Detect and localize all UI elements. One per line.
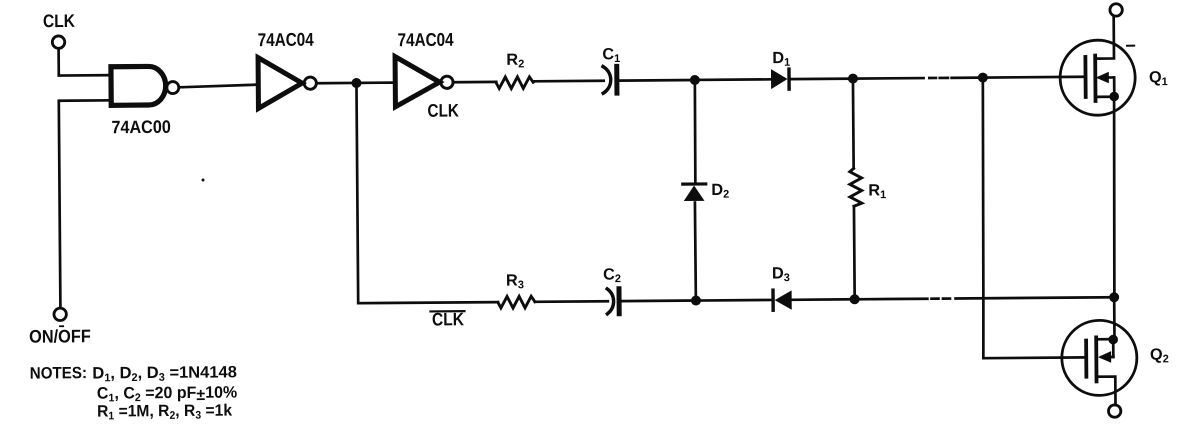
tick mark artifact near Q1 bbox=[1127, 45, 1134, 47]
wire dashes to node G bbox=[956, 297, 1115, 298]
wire inverter U2 to inverter U3 bbox=[317, 81, 395, 84]
Q2 drain lead from node G bbox=[1113, 297, 1116, 339]
wire node D down to Q2 gate bbox=[981, 77, 1086, 358]
capacitor C1 flat plate bbox=[614, 66, 619, 93]
diode D2 triangle bbox=[684, 185, 705, 201]
Q2 body arrow head bbox=[1098, 351, 1111, 363]
Q1 body arrow head bbox=[1096, 72, 1109, 84]
Q1 body arrow line bbox=[1101, 76, 1114, 79]
wire node B down through D2 to bottom rail bbox=[694, 80, 697, 301]
resistor R2 bbox=[496, 77, 533, 89]
wire node C down to R1 bbox=[852, 79, 855, 169]
diode D3 triangle bbox=[775, 290, 792, 310]
junction node C (R1 top) bbox=[848, 74, 858, 84]
Q2 source lead bbox=[1096, 377, 1115, 406]
junction node G (Q1 source / Q2 drain) bbox=[1109, 292, 1119, 302]
inverter U2 74AC04 triangle bbox=[258, 57, 302, 108]
svg-text:NOTES:: NOTES: bbox=[30, 365, 87, 383]
dashed wire segment (top rail) bbox=[929, 77, 948, 80]
junction node E (D2 bottom) bbox=[691, 296, 701, 306]
svg-text:CLK: CLK bbox=[427, 100, 459, 121]
Q1 body tie vertical bbox=[1113, 77, 1116, 96]
svg-text:CLK: CLK bbox=[43, 11, 76, 32]
svg-text:D1, D2, D3 =1N4148: D1, D2, D3 =1N4148 bbox=[92, 363, 237, 384]
dashed wire segment (bottom rail) bbox=[931, 297, 949, 300]
Q2 drain horizontal bbox=[1096, 338, 1113, 341]
junction node D (gate tap) bbox=[978, 73, 988, 83]
wire node B to D1 bbox=[695, 78, 771, 81]
scan tick artifact above ON/OFF label bbox=[60, 325, 63, 327]
diode D3 cathode bar bbox=[771, 290, 775, 310]
terminal Q2 source bbox=[1108, 405, 1120, 417]
terminal ON/OFF input bbox=[54, 308, 66, 320]
wire node A down and along bottom rail to R3 bbox=[356, 82, 498, 303]
wire NAND output to inverter U2 bbox=[180, 85, 257, 88]
junction node F (R1 bottom) bbox=[850, 294, 860, 304]
capacitor C1 curved plate bbox=[603, 66, 611, 93]
Q1 gate bar bbox=[1083, 57, 1087, 97]
Q2 drain-body junction dot bbox=[1108, 335, 1118, 345]
terminal CLK input bbox=[52, 36, 64, 48]
wire Q1 source down to node E bbox=[1113, 97, 1116, 298]
bottom rail: resistor R3 bbox=[498, 296, 535, 308]
wire R1 to bottom rail bbox=[853, 206, 856, 299]
wire D3 to node F bbox=[792, 298, 855, 301]
svg-text:74AC04: 74AC04 bbox=[258, 29, 315, 50]
inverter U2 output bubble bbox=[304, 77, 316, 89]
svg-text:R1 =1M, R2, R3 =1k: R1 =1M, R2, R3 =1k bbox=[97, 401, 232, 422]
Q2 gate bar bbox=[1084, 341, 1088, 377]
capacitor C2 flat plate bbox=[616, 289, 621, 314]
wire C2 to node E bbox=[621, 299, 696, 302]
wire CLK terminal to NAND input A bbox=[59, 48, 112, 76]
svg-text:ON/OFF: ON/OFF bbox=[29, 325, 91, 347]
diode D1 triangle bbox=[771, 69, 788, 89]
Q1 drain lead bbox=[1095, 16, 1114, 58]
capacitor C2 curved plate bbox=[607, 289, 614, 314]
NAND gate U1 74AC00 body bbox=[111, 66, 166, 105]
MOSFET Q1 body circle bbox=[1060, 40, 1136, 116]
wire ON/OFF terminal to NAND input B bbox=[59, 100, 113, 308]
Q2 body tie vertical bbox=[1112, 340, 1115, 357]
Q2 channel bar bbox=[1094, 337, 1098, 381]
wire C1 to node B bbox=[619, 79, 695, 82]
terminal Q1 drain bbox=[1110, 4, 1122, 16]
svg-text:74AC00: 74AC00 bbox=[111, 117, 171, 137]
svg-text:74AC04: 74AC04 bbox=[398, 29, 455, 50]
Q1 channel bar bbox=[1093, 56, 1097, 101]
junction node A (feedback tap) bbox=[351, 78, 361, 88]
inverter U3 74AC04 triangle bbox=[395, 56, 440, 107]
diode D2 cathode bar bbox=[683, 182, 706, 185]
resistor R1 bbox=[850, 168, 862, 206]
inverter U3 output bubble bbox=[441, 76, 453, 88]
wire node C toward dashes bbox=[853, 77, 924, 80]
Q1 source-body junction dot bbox=[1109, 92, 1119, 102]
Q1 source lead bbox=[1095, 95, 1114, 98]
wire node E to D3 bbox=[696, 299, 773, 302]
wire D1 to node C bbox=[789, 77, 853, 80]
diode D1 cathode bar bbox=[787, 69, 791, 89]
Q2 body arrow line bbox=[1102, 356, 1113, 359]
NAND U1 output bubble bbox=[167, 81, 179, 93]
noise dot artifact bbox=[202, 178, 205, 181]
wire R2 to C1 bbox=[533, 79, 603, 82]
wire R3 to C2 bbox=[535, 300, 608, 303]
MOSFET Q2 body circle bbox=[1062, 320, 1138, 396]
overline of CLK-bar bbox=[430, 310, 464, 312]
junction node B (C1/D1/D2) bbox=[690, 75, 700, 85]
wire inverter U3 output to R2 bbox=[453, 81, 496, 84]
wire dashes to Q1 gate bbox=[952, 77, 1086, 78]
wire node F toward dashes bbox=[855, 297, 928, 300]
